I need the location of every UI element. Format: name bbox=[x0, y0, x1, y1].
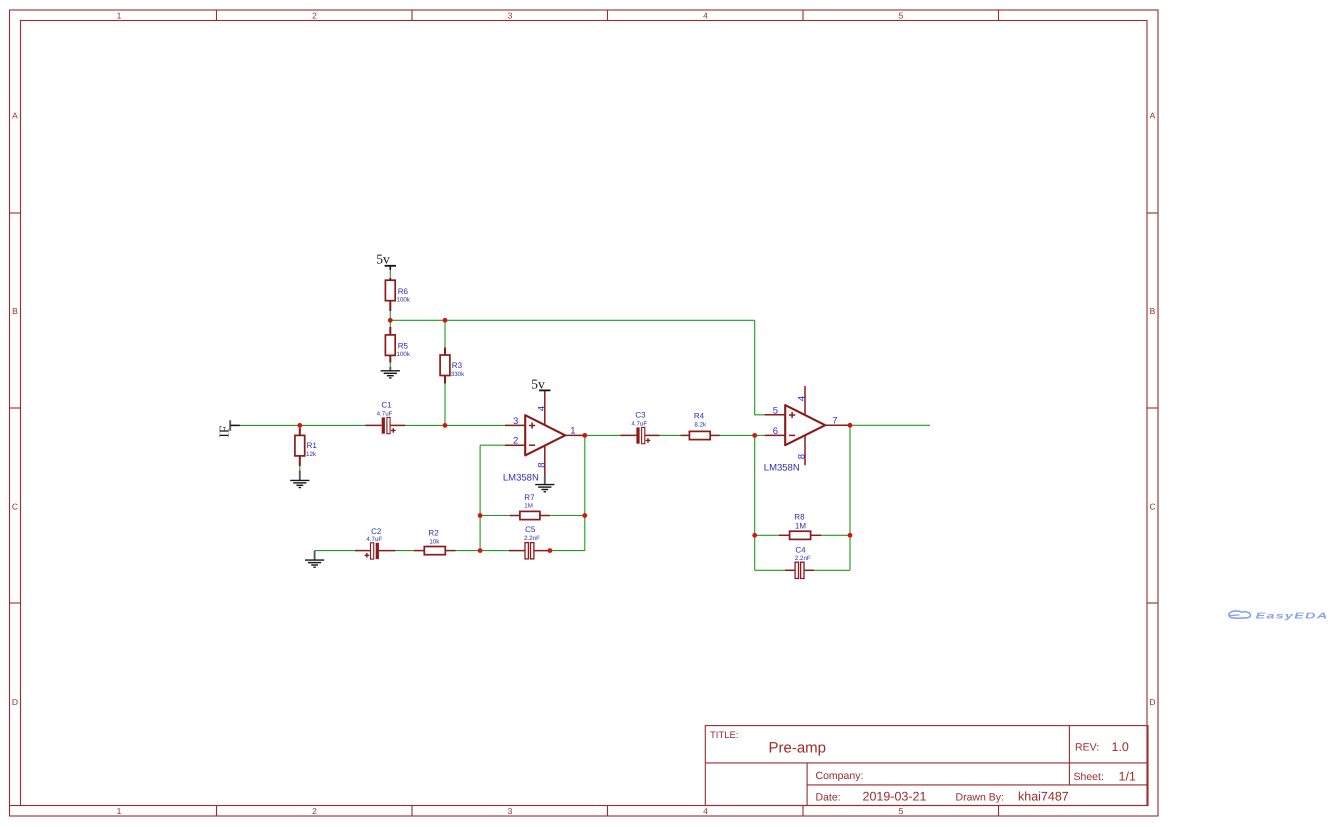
PIN LEADS dark red bbox=[300, 278, 850, 570]
wire R8 left bbox=[755, 534, 780, 536]
pin lead U1 pin8 bbox=[544, 445, 546, 476]
resistor R3 bbox=[440, 355, 465, 378]
pin lead R1 bottom bbox=[299, 455, 301, 466]
wire C2 to R2 bbox=[395, 550, 414, 552]
svg-text:khai7487: khai7487 bbox=[1018, 790, 1069, 804]
svg-text:3: 3 bbox=[513, 416, 518, 427]
svg-text:R6: R6 bbox=[398, 287, 409, 296]
pin lead U2 pin6 bbox=[765, 434, 786, 436]
svg-text:D: D bbox=[12, 697, 18, 707]
node C5 right bbox=[548, 548, 553, 553]
wire pin2 feedback left bbox=[480, 444, 505, 446]
svg-text:4: 4 bbox=[703, 806, 708, 816]
wire R2 to node bbox=[455, 550, 480, 552]
pin lead U1 pin2 bbox=[505, 444, 525, 446]
pin lead C4 left bbox=[785, 569, 795, 571]
pin lead R4 right bbox=[710, 434, 720, 436]
capacitor C5 bbox=[524, 525, 540, 559]
wire node to R5 top bbox=[389, 320, 391, 327]
node R3 bottom input bbox=[443, 423, 448, 428]
svg-text:1M: 1M bbox=[524, 502, 533, 509]
svg-text:R4: R4 bbox=[694, 411, 705, 420]
svg-text:B: B bbox=[12, 306, 18, 316]
svg-text:5: 5 bbox=[899, 806, 904, 816]
node U2 output bbox=[848, 423, 853, 428]
wire ground to C2 bbox=[315, 550, 356, 552]
wire node to C5 left bbox=[480, 550, 509, 552]
svg-text:C5: C5 bbox=[525, 525, 536, 534]
pin lead U2 pin7 bbox=[825, 424, 850, 426]
svg-text:7: 7 bbox=[832, 416, 837, 427]
svg-text:5: 5 bbox=[773, 405, 778, 416]
resistor R8 bbox=[790, 512, 811, 539]
node R4 pin6 bbox=[752, 433, 757, 438]
svg-text:TITLE:: TITLE: bbox=[710, 730, 739, 741]
pin lead U1 pin4 bbox=[544, 391, 546, 425]
svg-text:3: 3 bbox=[508, 11, 513, 21]
svg-text:LM358N: LM358N bbox=[764, 463, 800, 474]
svg-text:1.0: 1.0 bbox=[1112, 740, 1129, 754]
svg-text:Company:: Company: bbox=[816, 770, 864, 782]
svg-text:A: A bbox=[12, 111, 18, 121]
svg-text:2: 2 bbox=[312, 806, 317, 816]
svg-text:1M: 1M bbox=[795, 522, 806, 531]
svg-text:12k: 12k bbox=[306, 451, 317, 458]
pin lead U2 pin8 bbox=[804, 435, 806, 465]
resistor R7 bbox=[520, 493, 540, 519]
svg-text:C3: C3 bbox=[635, 410, 646, 419]
ground at U1 pin8 bbox=[535, 476, 554, 492]
resistor R6 bbox=[385, 280, 410, 303]
wire R6 bottom to node bbox=[389, 311, 391, 321]
pin lead C2 left bbox=[355, 550, 371, 552]
pin lead R6 bottom bbox=[389, 301, 391, 311]
ground at R5 bbox=[381, 367, 400, 378]
node R3 top bbox=[443, 318, 448, 323]
wire IF input run bbox=[240, 424, 366, 426]
svg-text:5v: 5v bbox=[376, 252, 390, 267]
EasyEDA watermark bbox=[1229, 611, 1329, 621]
pin lead R7 left bbox=[510, 515, 520, 517]
svg-text:2: 2 bbox=[513, 436, 518, 447]
pin lead R3 bottom bbox=[444, 375, 446, 383]
wire C4 bottom right bbox=[814, 569, 850, 571]
svg-text:EasyEDA: EasyEDA bbox=[1256, 611, 1329, 621]
svg-text:5v: 5v bbox=[531, 377, 545, 392]
TITLE BLOCK bbox=[705, 726, 1148, 806]
node R7 left bbox=[478, 513, 483, 518]
node R1 input bbox=[297, 423, 302, 428]
wire out2 feedback vertical bbox=[849, 425, 851, 570]
svg-text:R2: R2 bbox=[428, 528, 439, 537]
pin lead C5 right bbox=[534, 550, 550, 552]
pin lead U1 pin1 bbox=[565, 434, 585, 436]
resistor R1 bbox=[295, 435, 317, 458]
wire R7 right bbox=[550, 515, 585, 517]
wire C4 bottom left bbox=[755, 569, 786, 571]
svg-text:2.2nF: 2.2nF bbox=[795, 555, 811, 562]
wire R3 bottom to input net bbox=[444, 383, 446, 425]
svg-text:Drawn By:: Drawn By: bbox=[956, 791, 1004, 803]
svg-text:4.7uF: 4.7uF bbox=[366, 536, 382, 543]
pin lead C5 left bbox=[509, 550, 525, 552]
wire R8 right bbox=[821, 534, 850, 536]
svg-text:R5: R5 bbox=[398, 342, 409, 351]
capacitor C4 bbox=[795, 545, 811, 578]
svg-text:4: 4 bbox=[797, 396, 808, 401]
svg-text:2019-03-21: 2019-03-21 bbox=[863, 790, 927, 804]
power flag 5v at U1 bbox=[531, 377, 550, 392]
pin lead R8 left bbox=[779, 534, 790, 536]
svg-text:A: A bbox=[1150, 111, 1156, 121]
wire top net horizontal bbox=[390, 319, 754, 321]
wire node down to C4 net bbox=[754, 435, 756, 570]
wire R5 bottom segment bbox=[389, 362, 391, 367]
svg-text:1: 1 bbox=[570, 426, 575, 437]
node R8 left bbox=[752, 533, 757, 538]
wire R7 left bbox=[480, 515, 510, 517]
node C2 R2 bbox=[478, 548, 483, 553]
svg-text:C2: C2 bbox=[371, 527, 382, 536]
svg-text:4.7uF: 4.7uF bbox=[631, 421, 647, 428]
svg-text:C: C bbox=[12, 502, 18, 512]
power flag 5v at R6 bbox=[376, 252, 396, 270]
svg-text:8: 8 bbox=[797, 454, 808, 459]
pin lead R3 top bbox=[444, 348, 446, 356]
pin lead R5 bottom bbox=[389, 355, 391, 362]
pin lead R5 top bbox=[389, 327, 391, 335]
svg-text:100k: 100k bbox=[397, 296, 411, 303]
capacitor C3 bbox=[631, 410, 650, 443]
wire out1 to C3 bbox=[585, 434, 620, 436]
svg-text:6: 6 bbox=[773, 426, 778, 437]
svg-text:1: 1 bbox=[117, 806, 122, 816]
pin lead R6 top bbox=[389, 278, 391, 281]
svg-text:Sheet:: Sheet: bbox=[1074, 771, 1104, 783]
svg-text:R7: R7 bbox=[524, 493, 535, 502]
svg-text:Date:: Date: bbox=[816, 791, 841, 803]
wire feedback left vertical bbox=[479, 445, 481, 550]
svg-text:B: B bbox=[1150, 306, 1156, 316]
pin lead U2 pin4 bbox=[804, 386, 806, 415]
svg-text:LM358N: LM358N bbox=[503, 472, 539, 483]
svg-text:5: 5 bbox=[899, 11, 904, 21]
pin lead R7 right bbox=[540, 515, 550, 517]
wire node to R3 top bbox=[444, 320, 446, 348]
pin lead R1 top bbox=[299, 428, 301, 435]
capacitor C2 bbox=[365, 527, 383, 559]
ground at R1 bbox=[290, 471, 309, 488]
svg-text:2.2nF: 2.2nF bbox=[524, 535, 540, 542]
node U1 output bbox=[582, 433, 587, 438]
svg-text:C: C bbox=[1149, 502, 1155, 512]
svg-text:2: 2 bbox=[312, 11, 317, 21]
op-amp U2 LM358N bbox=[764, 396, 838, 474]
resistor R5 bbox=[385, 335, 410, 358]
svg-text:3: 3 bbox=[508, 806, 513, 816]
svg-text:4: 4 bbox=[536, 406, 547, 411]
svg-text:10k: 10k bbox=[429, 538, 440, 545]
wire C3 to R4 bbox=[659, 434, 681, 436]
pin lead C1 left bbox=[365, 424, 381, 426]
node R7 right bbox=[582, 513, 587, 518]
svg-text:4: 4 bbox=[703, 11, 708, 21]
svg-text:C1: C1 bbox=[381, 400, 392, 409]
svg-text:R1: R1 bbox=[307, 441, 318, 450]
svg-text:Pre-amp: Pre-amp bbox=[769, 740, 827, 757]
wire R4 to node bbox=[720, 434, 755, 436]
svg-text:R3: R3 bbox=[452, 361, 463, 370]
node R8 right bbox=[848, 533, 853, 538]
wire R1 lower gap bbox=[299, 466, 301, 471]
wire node to R1 top bbox=[299, 425, 301, 428]
svg-text:1: 1 bbox=[117, 11, 122, 21]
pin lead C4 right bbox=[804, 569, 814, 571]
resistor R2 bbox=[424, 528, 445, 554]
WIRES bbox=[240, 270, 931, 571]
op-amp U1 LM358N bbox=[503, 406, 576, 483]
pin lead C3 left bbox=[620, 434, 636, 436]
junction dots bbox=[297, 318, 852, 553]
pin lead C2 right bbox=[379, 550, 395, 552]
pin lead U1 pin3 bbox=[505, 424, 525, 426]
wire C5 right corner bbox=[550, 550, 585, 552]
svg-text:8: 8 bbox=[536, 462, 547, 467]
svg-text:REV:: REV: bbox=[1075, 742, 1099, 754]
pin lead C1 right bbox=[390, 424, 405, 426]
capacitor C1 bbox=[377, 400, 396, 433]
pin lead R8 right bbox=[811, 534, 822, 536]
wire top net vertical to pin5 bbox=[755, 320, 765, 415]
pin lead R2 left bbox=[414, 550, 424, 552]
svg-text:1/1: 1/1 bbox=[1119, 770, 1136, 784]
wire 5v flag to R6 bbox=[389, 270, 391, 281]
wire out2 run bbox=[850, 424, 930, 426]
wire out1 feedback vertical bbox=[584, 435, 586, 550]
wire C1 right to pin3 bbox=[405, 424, 505, 426]
svg-text:C4: C4 bbox=[795, 545, 806, 554]
svg-text:330k: 330k bbox=[451, 371, 465, 378]
ground at C2 bbox=[305, 551, 324, 568]
pin lead U2 pin5 bbox=[765, 414, 786, 416]
svg-text:D: D bbox=[1149, 697, 1155, 707]
pin lead R4 left bbox=[681, 434, 690, 436]
port IF bbox=[217, 420, 240, 437]
svg-text:8.2k: 8.2k bbox=[694, 422, 707, 429]
pin lead C3 right bbox=[644, 434, 659, 436]
wire node to pin6 bbox=[755, 434, 765, 436]
pin lead R2 right bbox=[445, 550, 455, 552]
node R6/R5 top wire bbox=[388, 318, 393, 323]
svg-text:100k: 100k bbox=[397, 351, 411, 358]
resistor R4 bbox=[689, 411, 710, 439]
svg-text:4.7uF: 4.7uF bbox=[377, 410, 393, 417]
svg-text:R8: R8 bbox=[794, 512, 805, 521]
